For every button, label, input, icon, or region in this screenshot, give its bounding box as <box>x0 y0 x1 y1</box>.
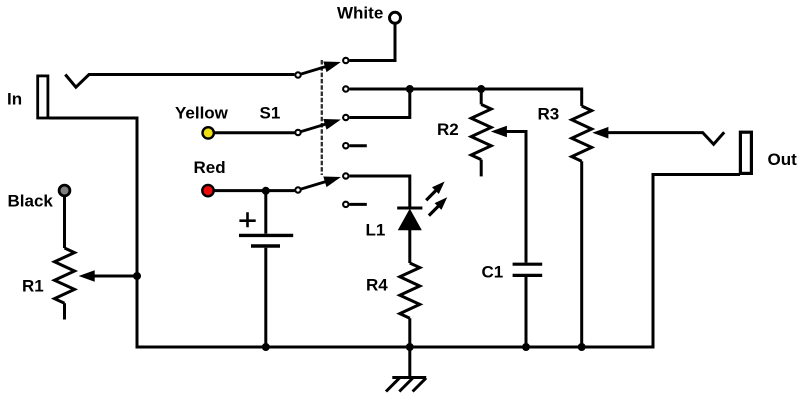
wire R2 wiper to C1 <box>505 132 526 263</box>
switch S1 pole 2 common contact <box>295 130 300 135</box>
wire R2 bottom stub <box>480 160 483 177</box>
node junction R3 rail <box>578 344 585 351</box>
wire S1 pole 3 throw A to LED <box>350 176 410 207</box>
wire S1 pole 3 throw B stub <box>350 203 367 206</box>
switch S1 pole 3 throw A contact <box>343 173 348 178</box>
battery B1 plus sign <box>239 212 255 227</box>
wire In sleeve / ground loop to Out sleeve <box>49 118 740 347</box>
jack J1 In body <box>38 76 48 118</box>
wire LED to R4 <box>408 230 411 264</box>
svg-text:Black: Black <box>8 192 54 211</box>
switch S1 pole 1 throw B contact <box>343 86 348 91</box>
svg-text:S1: S1 <box>260 104 281 123</box>
wire R4 bottom to rail <box>408 318 411 347</box>
terminal Yellow <box>203 127 214 138</box>
svg-text:R2: R2 <box>437 120 459 139</box>
potentiometer R2 <box>471 104 491 159</box>
switch S1 pole 2 throw A contact <box>343 115 348 120</box>
svg-text:R1: R1 <box>22 277 44 296</box>
switch S1 mechanical link dashed <box>321 60 323 175</box>
node junction R1 wiper <box>134 273 141 280</box>
node junction C1 rail <box>523 344 530 351</box>
jack J2 Out body <box>740 132 751 173</box>
switch S1 pole 1 arm <box>301 62 339 74</box>
svg-text:L1: L1 <box>366 221 386 240</box>
LED L1 light arrow 1 <box>426 190 436 200</box>
switch S1 pole 1 throw A contact <box>343 58 348 63</box>
LED L1 triangle <box>399 210 421 230</box>
switch S1 pole 3 common contact <box>295 187 300 192</box>
wire Red to S1 pole 3 common <box>214 189 295 192</box>
wire S1 pole 2 throw A link up to rail <box>350 89 410 118</box>
svg-text:Out: Out <box>768 150 798 169</box>
switch S1 pole 1 common contact <box>295 72 300 77</box>
wire R2 top <box>480 89 483 104</box>
svg-text:Red: Red <box>194 158 226 177</box>
wire White to S1 pole 1 throw A <box>349 25 395 61</box>
node junction battery ground <box>262 344 269 351</box>
wire top rail from S1 pole1 throw B to R3 <box>350 89 582 106</box>
battery B1 <box>239 234 293 237</box>
svg-text:R4: R4 <box>366 275 388 294</box>
wire S1 pole 2 throw B stub <box>350 144 367 147</box>
wire battery bottom to ground rail <box>264 248 267 347</box>
potentiometer R1 <box>55 248 75 303</box>
wire R1 wiper arrow <box>93 275 137 278</box>
wire Yellow to S1 pole 2 common <box>214 131 294 134</box>
node junction Red battery <box>262 187 269 194</box>
svg-text:White: White <box>337 4 383 23</box>
wire battery top to Red wire <box>264 191 267 234</box>
wire R3 bottom to rail <box>580 161 583 347</box>
svg-text:C1: C1 <box>482 262 504 281</box>
terminal White <box>390 12 401 23</box>
switch S1 pole 3 arm <box>301 177 339 189</box>
switch S1 pole 3 throw B contact <box>343 202 348 207</box>
ground symbol <box>386 347 426 392</box>
wire R1 bottom stub <box>63 303 66 319</box>
node junction rail B (R2 top) <box>478 86 485 93</box>
switch S1 pole 2 arm <box>301 119 339 131</box>
wire R3 wiper to Out tip with V contact <box>607 132 725 144</box>
svg-text:Yellow: Yellow <box>175 104 229 123</box>
svg-text:R3: R3 <box>538 104 560 123</box>
node junction R4 ground rail <box>406 344 413 351</box>
terminal Red <box>202 185 213 196</box>
LED L1 cathode bar <box>397 207 422 210</box>
capacitor C1 <box>513 263 543 266</box>
terminal Black <box>59 185 70 196</box>
wire C1 bottom to rail <box>525 277 528 347</box>
node junction rail A <box>406 86 413 93</box>
potentiometer R3 <box>572 106 592 161</box>
wire In tip contact V and wire to S1 pole 1 common <box>65 75 294 88</box>
switch S1 pole 2 throw B contact <box>343 143 348 148</box>
resistor R4 <box>400 263 420 318</box>
LED L1 light arrow 2 <box>429 206 439 216</box>
wire Black to R1 <box>63 197 66 249</box>
svg-text:In: In <box>7 90 22 109</box>
